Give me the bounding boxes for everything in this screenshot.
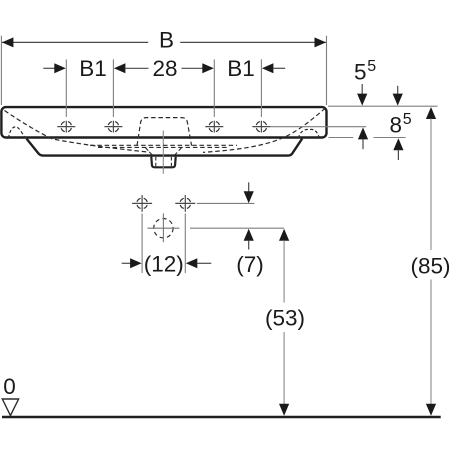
B1/28 extension line 1	[65, 59, 67, 117]
B1/28 extension line 2	[112, 59, 114, 117]
svg-text:(12): (12)	[144, 251, 184, 276]
drain vertical center line	[162, 131, 164, 174]
washbasin apron (lower body)	[27, 139, 303, 156]
dimension (7): lower up-arrow with stem	[244, 229, 254, 241]
dimension (85): vertical line lower segment with down-arrow	[430, 280, 432, 405]
drain tailpiece	[151, 157, 175, 168]
hidden funnel to drain right (dashed)	[175, 148, 182, 156]
svg-text:5: 5	[354, 60, 367, 85]
svg-text:B1: B1	[79, 56, 107, 81]
hidden bowl bottom front edge (dashed)	[98, 146, 229, 148]
dimension (12): extension line right	[184, 214, 186, 274]
svg-text:B: B	[159, 28, 174, 53]
wall mounting hole cross 2	[175, 195, 195, 212]
dimension (12): right arrow with tail	[186, 258, 198, 268]
hidden siphon cover dome (dashed)	[137, 118, 192, 146]
tap hole cross 3	[205, 121, 223, 133]
svg-text:0: 0	[3, 374, 16, 399]
dimension B: line right segment	[180, 41, 326, 43]
drain hole center cross horizontal	[147, 227, 179, 229]
dimension (53): vertical line upper segment with up-arrow	[279, 229, 289, 241]
svg-text:(53): (53)	[265, 305, 305, 330]
hidden bowl slope left (dashed)	[5, 111, 151, 153]
drain hole center cross vertical	[162, 213, 164, 242]
drain hole dashed circle	[154, 219, 173, 238]
svg-text:5: 5	[367, 58, 376, 75]
dimension B: extension line left	[0, 36, 2, 105]
hidden bowl bottom rear edge (dashed)	[90, 144, 237, 146]
svg-text:(85): (85)	[410, 254, 450, 279]
dimension 28: left arrow	[114, 63, 126, 73]
right reference line: basin bottom level segment 1	[329, 137, 354, 139]
dimension 5.5: upper down-arrow with stem	[361, 84, 363, 95]
dimension 8.5: lower up-arrow with stem	[393, 138, 403, 150]
tap hole cross 4	[252, 121, 270, 133]
svg-text:(7): (7)	[236, 252, 264, 277]
dimension (12): left arrow with tail	[122, 262, 133, 264]
tap hole cross 1	[57, 121, 75, 133]
dimension (53): vertical line lower segment with down-arrow	[283, 332, 285, 405]
dimension 8.5: upper down-arrow with stem	[397, 86, 399, 95]
dimension B1 second: outside arrow with tail	[262, 63, 274, 73]
dimension (7): upper down-arrow with stem	[248, 182, 250, 192]
tap hole cross 2	[104, 121, 122, 133]
hidden overflow bump right (dashed)	[298, 129, 319, 138]
dimension B1 first: outside arrow with tail	[43, 67, 55, 69]
mounting hole level reference line	[197, 202, 255, 204]
drain tailpiece inner dashed bores	[155, 157, 157, 166]
dimension B: line left segment	[2, 41, 148, 43]
hidden funnel to drain left (dashed)	[146, 148, 153, 156]
right reference line: basin bottom level segment 2	[374, 137, 406, 139]
washbasin upper body outline	[1, 107, 326, 137]
floor line	[2, 416, 441, 418]
dimension B: arrow left	[2, 37, 14, 47]
dimension (12): extension line left	[141, 214, 143, 274]
right reference line: basin rim level	[328, 105, 438, 107]
B1/28 extension line 4	[260, 59, 262, 117]
svg-text:28: 28	[152, 56, 177, 81]
svg-text:8: 8	[390, 113, 403, 138]
dimension (85): vertical line upper segment with up-arrow	[426, 107, 436, 119]
svg-text:5: 5	[403, 111, 412, 128]
dimension B: arrow right	[315, 37, 327, 47]
dimension B: extension line right	[326, 36, 328, 105]
hidden overflow bump left (dashed)	[9, 127, 26, 139]
floor datum triangle	[2, 399, 18, 416]
drain level reference line	[190, 227, 284, 229]
dimension 5.5: lower up-arrow with stem	[358, 127, 368, 139]
wall mounting hole cross 1	[132, 195, 152, 212]
right reference line: tap hole level	[271, 126, 367, 128]
dimension 28: right arrow	[182, 67, 204, 69]
hidden bowl slope right (dashed)	[203, 108, 325, 152]
svg-text:B1: B1	[227, 56, 255, 81]
B1/28 extension line 3	[213, 59, 215, 117]
